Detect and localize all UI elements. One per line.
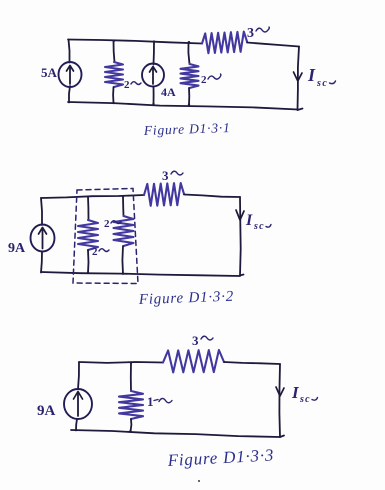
resistor 2Ω left (middle circuit) bbox=[78, 220, 98, 250]
resistor 2Ω R2 (top circuit) bbox=[181, 64, 199, 88]
wire top-right (top circuit) bbox=[247, 43, 299, 47]
wire right (bottom circuit) bbox=[278, 364, 281, 437]
current source 9A (bottom circuit) bbox=[64, 389, 92, 419]
svg-text:Figure D1·3·3: Figure D1·3·3 bbox=[166, 445, 274, 470]
wire right (middle circuit) bbox=[239, 197, 242, 276]
svg-text:Figure D1·3·1: Figure D1·3·1 bbox=[143, 120, 231, 138]
resistor 2Ω R1 (top circuit) bbox=[105, 62, 123, 87]
wire Rb2 top lead (middle circuit) bbox=[122, 197, 125, 217]
junction 4A-top (top circuit) bbox=[153, 40, 155, 42]
wire source bottom lead (middle circuit) bbox=[41, 252, 42, 273]
svg-text:sc: sc bbox=[253, 221, 265, 232]
wire R1 top lead (top circuit) bbox=[114, 41, 115, 62]
wire Rb1 top lead (middle circuit) bbox=[87, 197, 90, 221]
svg-text:I: I bbox=[307, 65, 316, 85]
resistor 2Ω right (middle circuit) bbox=[114, 216, 134, 246]
svg-text:5A: 5A bbox=[41, 65, 58, 80]
junction Rb2-bottom (middle circuit) bbox=[122, 272, 124, 274]
current source 4A bbox=[142, 64, 164, 87]
wire Rb2 bottom lead (middle circuit) bbox=[121, 246, 124, 274]
svg-text:sc: sc bbox=[316, 78, 328, 89]
junction R2-bottom (top circuit) bbox=[188, 103, 190, 105]
svg-text:3: 3 bbox=[192, 333, 199, 348]
junction Rb2-top (middle circuit) bbox=[122, 195, 124, 197]
svg-text:3: 3 bbox=[247, 26, 254, 41]
label 3Ω (middle circuit) bbox=[162, 168, 183, 183]
label 2Ω right (middle circuit) bbox=[104, 218, 121, 230]
junction 4A-bottom (top circuit) bbox=[152, 103, 154, 105]
label 2Ω left (middle circuit) bbox=[92, 246, 109, 258]
svg-text:2: 2 bbox=[124, 79, 130, 91]
svg-text:2: 2 bbox=[92, 246, 98, 258]
svg-text:4A: 4A bbox=[161, 85, 176, 99]
label Isc (middle circuit) bbox=[245, 212, 271, 232]
junction R-bottom (bottom circuit) bbox=[129, 430, 131, 432]
wire top-left (bottom circuit) bbox=[79, 361, 163, 364]
label Isc (top circuit) bbox=[307, 65, 336, 89]
svg-text:Figure D1·3·2: Figure D1·3·2 bbox=[138, 289, 235, 308]
wire R top lead (bottom circuit) bbox=[130, 363, 132, 391]
label 2Ω R1 (top circuit) bbox=[124, 79, 141, 91]
wire source bottom lead (bottom circuit) bbox=[76, 419, 77, 431]
wire bottom (top circuit) bbox=[68, 102, 298, 110]
wire source bottom lead (top circuit) bbox=[69, 86, 70, 103]
wire source top lead (bottom circuit) bbox=[78, 362, 79, 389]
resistor 3Ω (top circuit) bbox=[202, 32, 247, 54]
current source 9A (middle circuit) bbox=[31, 225, 55, 252]
junction R2-top (top circuit) bbox=[188, 41, 190, 43]
wire R2 top lead (top circuit) bbox=[188, 42, 189, 64]
wire R2 bottom lead (top circuit) bbox=[188, 88, 190, 105]
wire R1 bottom lead (top circuit) bbox=[112, 87, 114, 103]
corner hook bottom-right (middle circuit) bbox=[240, 275, 244, 276]
svg-text:sc: sc bbox=[299, 394, 311, 405]
wire source top lead (top circuit) bbox=[69, 40, 70, 63]
corner hook bottom-right (top circuit) bbox=[298, 109, 303, 111]
wire top-right (middle circuit) bbox=[184, 195, 240, 198]
label 3Ω (bottom circuit) bbox=[192, 333, 213, 348]
svg-text:2: 2 bbox=[201, 74, 207, 86]
resistor 1Ω (bottom circuit) bbox=[119, 391, 143, 419]
wire top-left (top circuit) bbox=[68, 40, 202, 44]
label Isc (bottom circuit) bbox=[291, 383, 318, 405]
wire top-right (bottom circuit) bbox=[224, 362, 280, 364]
svg-text:2: 2 bbox=[104, 218, 110, 230]
svg-text:1: 1 bbox=[147, 394, 154, 409]
svg-text:I: I bbox=[245, 212, 253, 229]
current source 5A bbox=[59, 62, 82, 87]
wire source top lead (middle circuit) bbox=[41, 198, 42, 225]
junction Rb1-top (middle circuit) bbox=[87, 196, 89, 198]
wire 4A bottom lead (top circuit) bbox=[153, 87, 155, 105]
wire bottom (bottom circuit) bbox=[71, 430, 280, 437]
wire 4A top lead (top circuit) bbox=[153, 42, 156, 65]
junction R1-bottom (top circuit) bbox=[112, 102, 114, 104]
corner hook bottom-right (bottom circuit) bbox=[280, 436, 284, 438]
label 3Ω (top circuit) bbox=[247, 26, 269, 41]
dashed box (Norton equivalent) bbox=[73, 189, 138, 284]
arrow Isc (bottom circuit) bbox=[276, 387, 284, 396]
junction R-top (bottom circuit) bbox=[130, 362, 132, 364]
wire Rb1 bottom lead (middle circuit) bbox=[87, 250, 90, 273]
svg-text:9A: 9A bbox=[8, 241, 26, 256]
label 2Ω R2 (top circuit) bbox=[201, 74, 221, 86]
wire bottom (middle circuit) bbox=[41, 272, 240, 276]
stray ink dot bbox=[198, 480, 200, 482]
arrow Isc (top circuit) bbox=[294, 72, 303, 81]
svg-text:3: 3 bbox=[162, 168, 169, 183]
label 1Ω (bottom circuit) bbox=[147, 394, 172, 409]
arrow Isc (middle circuit) bbox=[236, 210, 244, 220]
resistor 3Ω (bottom circuit) bbox=[163, 350, 224, 372]
svg-text:9A: 9A bbox=[37, 403, 56, 419]
svg-text:I: I bbox=[291, 383, 300, 402]
resistor 3Ω (middle circuit) bbox=[144, 183, 184, 206]
wire top-left (middle circuit) bbox=[41, 195, 144, 198]
wire right (top circuit) bbox=[298, 47, 300, 111]
wire R bottom lead (bottom circuit) bbox=[130, 419, 133, 432]
junction R1-top (top circuit) bbox=[113, 40, 115, 42]
junction Rb1-bottom (middle circuit) bbox=[87, 272, 89, 274]
